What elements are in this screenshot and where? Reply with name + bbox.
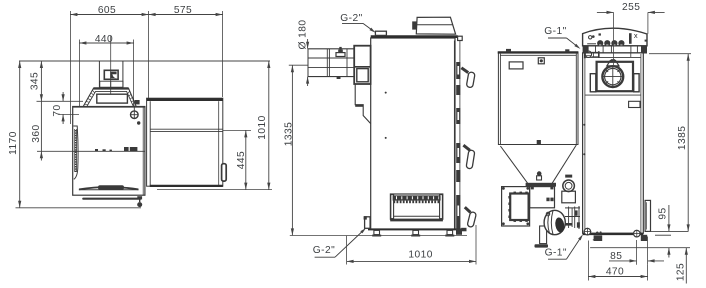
flue pipe flanges xyxy=(326,49,328,77)
right slot bracket xyxy=(645,200,650,231)
bottom lip dark band xyxy=(79,187,138,189)
funnel mid nub xyxy=(537,140,541,145)
hopper door handle right xyxy=(222,164,227,181)
hopper split double line xyxy=(150,128,222,130)
dim 605/575 extension middle (hopper left) xyxy=(148,11,150,98)
left edge hinge dots xyxy=(583,124,585,126)
bracket between boiler and hopper xyxy=(135,100,140,104)
control panel on top xyxy=(416,17,455,34)
auger housing xyxy=(530,187,555,208)
extension line at boiler top left xyxy=(37,100,84,102)
door handle 1 (top right) xyxy=(461,68,468,73)
dim 440 xyxy=(79,42,133,44)
svg-text:G-1": G-1" xyxy=(544,26,566,37)
arch port circles xyxy=(597,40,603,46)
rear bottom bracket xyxy=(456,229,462,235)
small dot below plug xyxy=(137,121,140,124)
boiler top thick bar xyxy=(371,35,458,38)
boiler front body xyxy=(73,107,145,196)
fan mounting frame to boiler xyxy=(565,207,580,209)
svg-text:445: 445 xyxy=(236,151,247,169)
hopper top-center clip xyxy=(538,58,544,64)
boiler back body xyxy=(583,53,644,233)
hopper top inner line xyxy=(500,54,576,56)
boiler back bottom thick line xyxy=(583,233,644,235)
arch small fittings left xyxy=(589,36,592,39)
extension line at 70 lower xyxy=(58,113,79,115)
dim 1010 (side view) xyxy=(347,260,476,262)
bottom grille frame xyxy=(390,194,442,219)
svg-text:G-2": G-2" xyxy=(340,13,362,24)
mid horizontal line of front xyxy=(73,150,145,152)
svg-text:470: 470 xyxy=(606,267,624,278)
burner tube circle xyxy=(563,180,575,192)
dim 1385 top extension xyxy=(649,53,691,55)
boiler back arch top xyxy=(583,28,647,46)
extension line at mid line left xyxy=(37,150,73,152)
rear wall lines xyxy=(453,41,455,229)
dim 85 (outside arrows) xyxy=(609,260,637,262)
dim 1335 top extension xyxy=(289,64,309,66)
hopper left inner edge xyxy=(499,54,501,145)
svg-text:G-1": G-1" xyxy=(545,248,567,259)
fan motor dark front ellipse xyxy=(554,217,565,233)
dim 605 extension left xyxy=(69,11,71,124)
svg-text:1170: 1170 xyxy=(8,131,19,155)
flue center line xyxy=(110,36,112,94)
funnel outlet flange xyxy=(526,183,556,187)
flue panel square xyxy=(597,62,633,91)
hopper label plate xyxy=(509,62,523,69)
G-2 top fitting xyxy=(375,31,386,35)
dim 440 extension lines xyxy=(78,40,80,107)
feet xyxy=(374,230,380,234)
caster wheel bottom right xyxy=(137,196,142,199)
top plate under arch xyxy=(583,45,647,47)
funnel bottom clip xyxy=(537,171,542,176)
svg-text:85: 85 xyxy=(610,251,622,262)
slot bottom extension line A xyxy=(648,230,688,232)
svg-text:1385: 1385 xyxy=(677,126,688,150)
hopper top clips xyxy=(506,49,511,52)
dim 1170 bottom extension xyxy=(16,207,142,209)
dim 85 extensions xyxy=(636,240,638,265)
body bottom thick line xyxy=(368,228,462,230)
dim 360 vertical (outside arrows) xyxy=(40,101,42,151)
flue pipe diameter 180 dim line (outside arrows) xyxy=(307,39,309,49)
flue pipe horizontal xyxy=(308,48,354,50)
dim 345 vertical xyxy=(40,61,42,101)
G-1 bottom connection circle left xyxy=(584,228,591,235)
box below chimney xyxy=(100,81,123,87)
gear box scalloped inner xyxy=(510,194,528,221)
svg-text:95: 95 xyxy=(658,207,669,219)
grille comb teeth xyxy=(393,201,439,204)
dim 445 top extension xyxy=(223,129,251,131)
dim 70 (outside arrows) xyxy=(62,92,64,101)
top reference line (boiler top level) xyxy=(19,60,270,62)
door bolt dots xyxy=(385,92,387,94)
arch dark bar xyxy=(629,33,632,44)
dim 575 xyxy=(149,14,223,16)
hopper inner right line xyxy=(218,101,220,185)
panel bottom line xyxy=(585,94,641,96)
inner right edge line xyxy=(142,107,144,195)
dim 95 (outside arrows) xyxy=(668,205,670,231)
grille side posts xyxy=(391,195,394,219)
boiler top edge line xyxy=(73,106,145,108)
hopper right inner edge xyxy=(575,54,577,145)
dim 470 left extension xyxy=(587,241,589,281)
right flank rect xyxy=(634,74,639,92)
pellet hopper back panel xyxy=(498,53,578,145)
dim 125 below ground xyxy=(685,248,687,284)
ground line B (back view) xyxy=(590,247,690,249)
back feet xyxy=(594,235,603,241)
panel knob left xyxy=(412,21,417,29)
svg-text:360: 360 xyxy=(31,124,42,142)
hopper top thick bar xyxy=(498,51,579,53)
door hinge strip left (hatched) xyxy=(73,126,78,179)
inner top line xyxy=(585,56,641,58)
svg-text:125: 125 xyxy=(675,263,686,281)
ground extension line (side view) xyxy=(290,235,467,237)
dim 255 (outside arrows) xyxy=(597,11,614,13)
rear top fitting xyxy=(458,36,463,40)
flue clamp above circle xyxy=(607,61,619,66)
svg-text:70: 70 xyxy=(52,104,63,116)
auger gear box xyxy=(502,187,530,226)
fan support leg xyxy=(540,226,547,244)
dim 255 extensions xyxy=(613,12,615,66)
svg-text:Ø 180: Ø 180 xyxy=(297,19,308,49)
G-1 bottom connection circle right xyxy=(634,230,641,237)
flue circle xyxy=(602,66,623,87)
slope side hatching xyxy=(84,90,135,105)
dim 1010 vertical (front view) xyxy=(268,61,270,190)
svg-text:575: 575 xyxy=(174,5,192,16)
dim 470 xyxy=(588,276,647,278)
svg-text:G-2": G-2" xyxy=(313,245,335,256)
svg-text:605: 605 xyxy=(98,5,116,16)
svg-text:1010: 1010 xyxy=(257,115,268,139)
arch right mark xyxy=(645,40,647,42)
hopper left inner line xyxy=(149,101,151,186)
svg-text:x: x xyxy=(634,31,638,40)
grille bottom bar xyxy=(390,219,443,221)
dim 445 vertical xyxy=(245,130,247,189)
boiler side body xyxy=(371,38,455,230)
front door profile below chamber xyxy=(355,84,371,124)
dim 605 xyxy=(70,14,148,16)
rear hinge blocks xyxy=(456,62,460,79)
sloped top panel of boiler xyxy=(83,88,136,106)
dim 1335 vertical xyxy=(291,65,293,235)
svg-text:345: 345 xyxy=(29,72,40,90)
svg-text:1335: 1335 xyxy=(283,122,294,146)
hopper funnel xyxy=(498,144,576,146)
flue chamber inner box xyxy=(357,69,368,82)
G-1 top connection xyxy=(584,50,586,58)
bolts above mid line xyxy=(124,147,129,151)
dim 1385 vertical xyxy=(687,54,689,232)
burner tube cap xyxy=(565,175,572,178)
svg-text:1010: 1010 xyxy=(408,250,432,261)
door handle 3 (bottom right) xyxy=(465,207,471,212)
small bolts near bottom xyxy=(596,232,599,235)
dim 1010 extensions (side view) xyxy=(346,236,348,265)
control panel recess on slope xyxy=(97,94,128,103)
hopper top thick bar xyxy=(147,98,223,101)
fill plug circle with cross xyxy=(131,111,139,119)
svg-text:255: 255 xyxy=(622,2,640,13)
dim 1170 vertical xyxy=(19,61,21,208)
hopper bottom thick line xyxy=(150,185,223,187)
clamp valve on pipe xyxy=(336,53,345,57)
bottom base bar xyxy=(82,198,141,200)
front flue chamber box xyxy=(354,46,370,84)
chimney box with damper xyxy=(104,70,118,79)
hopper front panel (right) xyxy=(147,98,223,186)
G-2 bottom fitting xyxy=(365,217,371,229)
grille shelf line xyxy=(394,215,440,217)
dim 575 extension right (hopper right) xyxy=(222,11,224,97)
fan motor cylinder xyxy=(544,210,565,234)
grille top dark band xyxy=(393,195,441,200)
left flank rect xyxy=(590,74,596,92)
bottom extension line under hopper xyxy=(157,189,272,191)
small rect lower right xyxy=(629,101,640,107)
boiler flue shaft verticals xyxy=(98,61,100,88)
door handle 2 (middle right) xyxy=(463,145,470,150)
